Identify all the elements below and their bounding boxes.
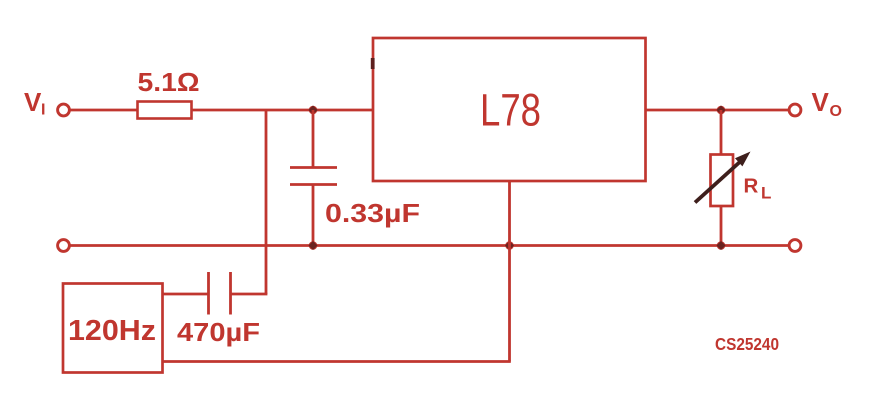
terminal VI	[58, 104, 70, 116]
wire node to C1	[312, 110, 315, 168]
label VI	[24, 87, 45, 119]
svg-text:L: L	[761, 183, 771, 202]
load resistor RL	[711, 155, 734, 207]
junction output node	[716, 105, 725, 114]
junction input node top	[308, 105, 317, 114]
terminal ground right	[789, 240, 801, 252]
label VO	[812, 87, 842, 120]
regulator U1 box	[373, 38, 646, 181]
wire generator to C2	[163, 293, 209, 296]
junction U1 ground	[505, 241, 514, 250]
wire tee down to C2 (x=266)	[265, 110, 268, 294]
ground rail wire	[71, 244, 789, 247]
pin 1 mark	[371, 58, 375, 69]
wire RL to ground rail	[720, 206, 723, 246]
svg-text:V: V	[24, 87, 42, 117]
resistor R1 5.1ohm	[138, 102, 192, 119]
svg-text:5.1Ω: 5.1Ω	[138, 67, 200, 97]
terminal VO	[789, 104, 801, 116]
wire R1 to U1 input	[192, 109, 374, 112]
svg-text:120Hz: 120Hz	[68, 315, 156, 347]
terminal ground left	[58, 240, 70, 252]
svg-text:V: V	[812, 87, 830, 117]
svg-text:O: O	[830, 103, 842, 120]
svg-text:0.33µF: 0.33µF	[325, 198, 420, 228]
capacitor C1 plates	[290, 168, 337, 185]
label RL	[744, 175, 772, 203]
wire node to RL	[720, 110, 723, 155]
svg-text:L78: L78	[480, 85, 541, 136]
wire down to generator	[163, 360, 511, 363]
svg-text:470µF: 470µF	[177, 317, 260, 347]
wire U1 common pin down	[508, 181, 511, 362]
svg-text:I: I	[41, 102, 45, 119]
wire C2 to input node	[231, 293, 268, 296]
svg-text:CS25240: CS25240	[715, 334, 779, 354]
wire U1 output to VO	[646, 109, 790, 112]
junction RL ground	[716, 241, 725, 250]
wire VI to R1	[71, 109, 138, 112]
wire C1 to ground rail	[312, 185, 315, 246]
generator G1 120Hz box	[63, 284, 163, 373]
svg-text:R: R	[744, 175, 759, 198]
junction C1 ground	[308, 241, 317, 250]
capacitor C2 plates	[209, 272, 231, 315]
RL variable arrow	[695, 152, 751, 203]
